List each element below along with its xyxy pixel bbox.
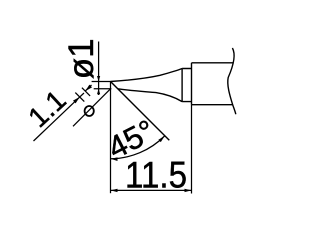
svg-text:11.5: 11.5 bbox=[125, 155, 187, 196]
svg-text:ø1: ø1 bbox=[62, 38, 101, 79]
svg-text:1.1: 1.1 bbox=[22, 84, 72, 133]
